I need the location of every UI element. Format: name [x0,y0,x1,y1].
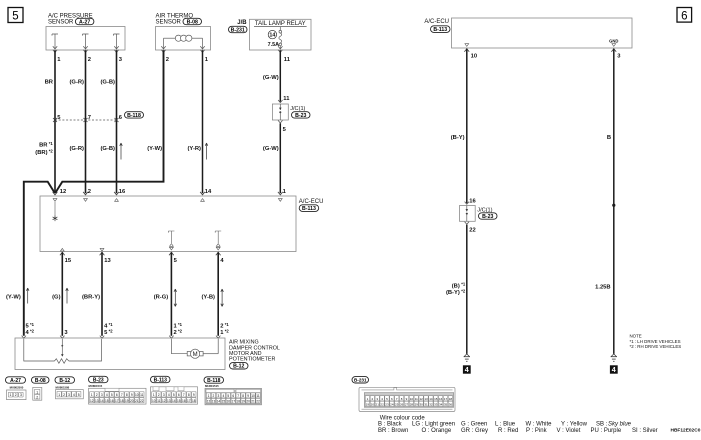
svg-text:14: 14 [205,189,212,195]
svg-text:21: 21 [376,403,380,407]
svg-text:B-113: B-113 [154,377,168,383]
svg-text:B-113: B-113 [302,206,316,212]
svg-text:*1: *1 [49,141,54,146]
svg-text:16: 16 [439,397,443,401]
svg-text:7.5A: 7.5A [268,42,279,48]
svg-text:HBF12E02C0: HBF12E02C0 [671,428,701,434]
svg-text:8: 8 [242,394,244,398]
junction dot on B wire [612,204,615,207]
ground (left, right page) [464,354,469,357]
svg-text:B-08: B-08 [187,19,198,25]
inline connector B-118 dashed line [55,119,117,121]
motor M [171,339,218,358]
svg-text:15: 15 [222,400,226,404]
svg-text:29: 29 [415,403,419,407]
svg-text:17: 17 [115,399,119,403]
junction x at B-118 pin 6 [115,118,119,122]
svg-text:MU801515: MU801515 [205,384,219,388]
svg-text:(G-R): (G-R) [70,146,85,152]
connector face B-23 [89,376,147,404]
svg-text:B-118: B-118 [127,113,141,119]
svg-text:B-23: B-23 [295,113,306,119]
flow arrow up on Y-W wire [26,288,29,304]
svg-text:2: 2 [88,189,91,195]
svg-text:4: 4 [222,394,224,398]
wire BR: A/C pressure sensor pin 1 to ECU pin 12 [54,50,56,193]
svg-text:22: 22 [380,403,384,407]
svg-text:*2: *2 [461,288,466,293]
connector face B-118 [204,377,262,405]
svg-text:14: 14 [172,399,176,403]
svg-text:6: 6 [232,394,234,398]
ECU pin 3 (right page) [611,44,616,52]
svg-text:V : Violet: V : Violet [557,428,581,434]
svg-text:5: 5 [173,393,175,397]
wire R-G: ECU pin 5 to damper motor [170,252,172,335]
svg-text:2: 2 [213,394,215,398]
junction x at B-118 pin 5 [53,118,57,122]
ECU pin 10 (right page) [464,44,469,52]
svg-text:R : Red: R : Red [498,428,518,434]
svg-text:8: 8 [126,393,128,397]
svg-text:22: 22 [469,227,475,233]
page number 5 [8,8,23,23]
svg-text:10: 10 [471,54,477,60]
svg-text:30: 30 [419,403,423,407]
svg-text:34: 34 [439,403,443,407]
svg-text:2: 2 [36,395,38,399]
svg-text:11: 11 [157,399,161,403]
svg-text:MU801515: MU801515 [89,384,103,388]
svg-text:A/C-ECU: A/C-ECU [424,19,449,25]
svg-text:W : White: W : White [526,421,553,427]
svg-text:11: 11 [415,397,418,401]
svg-text:BR : Brown: BR : Brown [378,428,408,434]
svg-text:M: M [193,352,198,358]
svg-text:Sky blue: Sky blue [608,421,632,427]
svg-text:5: 5 [111,393,113,397]
svg-text:4: 4 [465,365,469,374]
svg-text:2: 2 [15,393,17,397]
internal continuation stub with asterisk (pin 12) [53,202,58,221]
thermistor element [164,37,177,39]
svg-text:A-27: A-27 [79,19,90,25]
svg-text:13: 13 [212,400,216,404]
ground (right, right page) [611,354,616,357]
flow arrow double on Y-B wire [221,289,224,307]
svg-text:7: 7 [183,393,185,397]
svg-text:1: 1 [91,393,93,397]
svg-text:SENSOR: SENSOR [156,20,182,26]
wire G: ECU pin 15 to damper pot wiper [61,252,63,335]
svg-text:18: 18 [449,397,453,401]
svg-text:2: 2 [174,330,177,336]
flow arrow up on G wire [66,288,69,304]
svg-text:*1: *1 [178,322,183,327]
svg-text:7: 7 [121,393,123,397]
svg-text:9: 9 [193,393,195,397]
svg-text:B-23: B-23 [482,214,493,220]
fuse 14, 7.5A [279,30,282,33]
connector face B-113 [151,376,198,404]
svg-text:P : Pink: P : Pink [526,428,548,434]
svg-text:(G-W): (G-W) [263,75,279,81]
svg-text:(G-B): (G-B) [101,146,116,152]
A/C pressure sensor A-27 [46,13,125,52]
svg-text:B-12: B-12 [59,378,70,384]
svg-text:33: 33 [434,403,438,407]
page number 6 [677,8,692,23]
svg-text:*2: *2 [178,328,183,333]
svg-text:14: 14 [217,400,221,404]
joint connector J/C(1) B-23 (right) [460,202,476,225]
svg-text:PU : Purple: PU : Purple [591,428,622,434]
svg-text:15: 15 [65,258,72,264]
svg-text:L : Blue: L : Blue [495,421,516,427]
svg-text:26: 26 [400,403,404,407]
svg-text:O : Orange: O : Orange [422,428,452,434]
svg-text:*1: *1 [461,282,466,287]
svg-text:Wire colour code: Wire colour code [380,415,426,421]
svg-text:6: 6 [178,393,180,397]
potentiometer [24,339,102,363]
svg-text:20: 20 [246,400,250,404]
svg-text:(Y-W): (Y-W) [147,146,162,152]
svg-text:(BR-Y): (BR-Y) [82,294,100,300]
A/C-ECU box B-113 (right page) [424,18,632,48]
svg-text:1.25B: 1.25B [595,284,610,290]
svg-text:27: 27 [405,403,409,407]
svg-text:35: 35 [444,403,448,407]
svg-text:2: 2 [88,57,91,63]
svg-text:1: 1 [58,393,60,397]
svg-text:(Y-B): (Y-B) [201,294,215,300]
svg-text:24: 24 [390,403,394,407]
svg-text:6: 6 [116,393,118,397]
air mixing damper control motor and potentiometer box B-12 [15,336,225,370]
ECU pin 1 (top) [278,192,283,201]
ground ref 4 (right) [610,365,618,373]
svg-text:11: 11 [140,393,144,397]
svg-text:3: 3 [101,393,103,397]
svg-text:12: 12 [207,400,211,404]
svg-text:SB :: SB : [596,421,608,427]
svg-text:14: 14 [100,399,104,403]
svg-text:SENSOR: SENSOR [48,20,74,26]
svg-text:*1: *1 [109,322,114,327]
ECU pin 15 (bottom) [60,248,65,255]
wire Y-R: air thermo pin 1 to ECU pin 14 [202,50,204,193]
svg-text:B-231: B-231 [231,27,245,33]
svg-text:18: 18 [192,399,196,403]
svg-text:(R-G): (R-G) [154,294,169,300]
svg-text:2: 2 [158,393,160,397]
ECU pin 12 (top) [53,192,58,201]
connector face B-231 [352,377,455,412]
svg-text:11: 11 [284,57,291,63]
svg-text:4: 4 [168,393,170,397]
svg-text:3: 3 [68,393,70,397]
wire Y-W: air thermo pin 2 / damper pot, joined at ECU pin 12 [55,50,163,193]
svg-text:B-231: B-231 [354,378,367,383]
svg-text:32: 32 [429,403,433,407]
svg-text:LG : Light green: LG : Light green [412,421,455,427]
svg-text:7: 7 [237,394,239,398]
svg-text:31: 31 [424,403,428,407]
svg-text:11: 11 [283,96,290,102]
svg-text:*1: *1 [30,322,35,327]
flow arrow double on R-G wire [174,289,177,307]
connector face B-08 [32,377,50,400]
svg-text:20: 20 [371,403,375,407]
svg-text:15: 15 [177,399,181,403]
svg-text:1: 1 [36,390,38,394]
svg-text:16: 16 [469,198,476,204]
wire G-R: A/C pressure sensor pin 2 to ECU pin 2 [85,50,87,193]
A/C-ECU box B-113 (left page) [40,196,323,252]
svg-text:14: 14 [269,33,275,39]
svg-text:A/C-ECU: A/C-ECU [299,199,324,205]
svg-text:*2: *2 [109,328,114,333]
svg-text:17: 17 [187,399,191,403]
svg-text:22: 22 [140,399,144,403]
svg-text:(G-R): (G-R) [70,80,85,86]
svg-text:*2: *2 [49,149,54,154]
svg-text:A-27: A-27 [10,378,21,384]
svg-text:*2: *2 [225,328,230,333]
wire B / B-Y: J/C(1) to ground [466,225,468,354]
svg-text:(Y-W): (Y-W) [6,294,21,300]
svg-text:16: 16 [227,400,231,404]
flow arrow up on Y-R wire [205,143,208,160]
damper box caption [229,340,280,370]
note block [630,334,682,349]
svg-text:5: 5 [12,11,18,23]
ECU pin internal stub at x=171.4 [168,231,174,255]
svg-text:13: 13 [167,399,171,403]
svg-text:1: 1 [10,393,12,397]
svg-text:(Y-R): (Y-R) [187,146,201,152]
svg-text:SI : Silver: SI : Silver [632,428,658,434]
svg-text:16: 16 [182,399,186,403]
tail lamp relay [250,19,312,52]
svg-text:2: 2 [166,57,169,63]
svg-text:9: 9 [131,393,133,397]
svg-text:6: 6 [681,10,687,22]
svg-text:18: 18 [236,400,240,404]
svg-text:BR: BR [45,80,54,86]
svg-text:3: 3 [163,393,165,397]
svg-text:13: 13 [95,399,99,403]
ECU pin 16 (top) [114,192,119,201]
svg-text:8: 8 [188,393,190,397]
svg-text:(G-B): (G-B) [101,80,116,86]
svg-text:B : Black: B : Black [378,421,403,427]
svg-text:*2 : RH DRIVE VEHICLES: *2 : RH DRIVE VEHICLES [630,344,682,349]
svg-text:15: 15 [105,399,109,403]
svg-text:J/C(1): J/C(1) [290,106,305,112]
svg-text:*1: *1 [225,322,230,327]
svg-text:4: 4 [73,393,75,397]
joint connector J/C(1) B-23 (left) [272,100,288,123]
svg-text:16: 16 [110,399,114,403]
svg-text:19: 19 [366,403,370,407]
svg-text:(G): (G) [52,294,60,300]
ECU pin 2 (top) [83,192,88,201]
air thermo sensor B-08 [156,13,211,52]
svg-text:36: 36 [449,403,453,407]
svg-text:MU801586: MU801586 [56,385,70,389]
flow arrow up on G-B wire [120,143,123,160]
svg-text:19: 19 [125,399,129,403]
wire G-B: A/C pressure sensor pin 3 to ECU pin 16 [116,50,118,193]
svg-text:4: 4 [612,365,616,374]
svg-text:10: 10 [135,393,139,397]
svg-text:21: 21 [251,400,255,404]
wire BR-Y: ECU pin 13 to damper pot [101,252,103,335]
svg-text:15: 15 [434,397,438,401]
svg-text:17: 17 [231,400,235,404]
B-118 pill [125,112,144,118]
svg-text:14: 14 [429,397,433,401]
svg-text:16: 16 [119,189,126,195]
svg-text:7: 7 [88,115,91,121]
ECU pin 14 (top) [200,192,205,201]
svg-text:*2: *2 [30,328,35,333]
svg-text:5: 5 [227,394,229,398]
svg-text:B-12: B-12 [233,364,244,370]
svg-text:18: 18 [120,399,124,403]
B-23 pill (left J/C) [292,112,311,118]
svg-text:23: 23 [385,403,389,407]
svg-text:3: 3 [20,393,22,397]
wire G-W: tail lamp relay pin 11 to J/C(1) [279,50,281,102]
svg-text:1: 1 [153,393,155,397]
svg-text:4: 4 [106,393,108,397]
svg-text:2: 2 [96,393,98,397]
svg-text:B-113: B-113 [433,27,447,33]
svg-text:22: 22 [256,400,260,404]
junction x at B-118 pin 7 [84,118,88,122]
wire B: ECU pin 3 to ground [613,49,615,354]
svg-text:(B-Y): (B-Y) [446,290,460,296]
svg-text:POTENTIOMETER: POTENTIOMETER [229,357,276,363]
wire B-Y: ECU pin 10 to J/C(1) [466,49,468,204]
svg-text:B-118: B-118 [207,378,221,384]
svg-text:Y : Yellow: Y : Yellow [561,421,588,427]
svg-text:20: 20 [130,399,134,403]
svg-text:2: 2 [63,393,65,397]
svg-text:B: B [607,135,611,141]
svg-text:12: 12 [419,397,423,401]
ECU pin internal stub at x=218.2 [215,231,221,255]
svg-text:13: 13 [424,397,428,401]
svg-text:3: 3 [218,394,220,398]
svg-text:MU802500: MU802500 [10,385,24,389]
svg-text:12: 12 [90,399,94,403]
wire colour code [378,415,658,434]
connector face B-12 [55,377,83,399]
svg-text:(G-W): (G-W) [263,146,279,152]
svg-text:GR : Grey: GR : Grey [461,428,488,434]
svg-text:10: 10 [251,394,255,398]
svg-text:28: 28 [410,403,414,407]
svg-text:GND: GND [609,38,618,43]
svg-text:B-08: B-08 [35,378,46,384]
svg-text:(B-Y): (B-Y) [451,135,465,141]
svg-text:J/B: J/B [237,20,247,26]
svg-text:12: 12 [162,399,166,403]
svg-text:B-23: B-23 [93,377,104,383]
svg-text:17: 17 [444,397,448,401]
svg-text:11: 11 [256,394,260,398]
svg-text:5: 5 [78,393,80,397]
ECU pin 13 (bottom) [100,248,105,255]
svg-text:12: 12 [60,189,66,195]
svg-text:13: 13 [104,258,111,264]
B-23 pill (right J/C) [479,213,498,219]
svg-text:(B): (B) [452,283,460,289]
svg-text:G : Green: G : Green [461,421,487,427]
svg-text:10: 10 [152,399,156,403]
ground ref 4 (left) [463,365,471,373]
svg-text:9: 9 [247,394,249,398]
svg-text:10: 10 [410,397,414,401]
wire G-W: J/C(1) to ECU pin 1 [279,123,281,193]
svg-text:25: 25 [395,403,399,407]
svg-text:(BR): (BR) [35,150,47,156]
junction block B-231 pill [229,26,248,32]
svg-text:21: 21 [135,399,139,403]
svg-text:BR: BR [39,143,48,149]
svg-text:2: 2 [220,324,223,330]
svg-text:1: 1 [208,394,210,398]
connector face A-27 [6,377,27,400]
wire Y-B: ECU pin 4 to damper motor [217,252,219,335]
svg-text:19: 19 [241,400,245,404]
